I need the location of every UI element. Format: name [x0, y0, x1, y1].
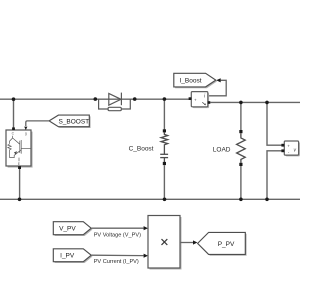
svg-text:PV Current (I_PV): PV Current (I_PV) — [94, 259, 139, 265]
svg-text:I_Boost: I_Boost — [179, 77, 201, 84]
svg-text:C_Boost: C_Boost — [129, 146, 154, 153]
svg-text:V_PV: V_PV — [59, 226, 76, 233]
svg-text:LOAD: LOAD — [213, 147, 231, 154]
svg-text:g: g — [25, 132, 27, 136]
svg-text:S_BOOST: S_BOOST — [58, 118, 89, 125]
svg-text:P_PV: P_PV — [218, 241, 235, 248]
svg-text:I_PV: I_PV — [60, 253, 75, 260]
svg-text:PV Voltage (V_PV): PV Voltage (V_PV) — [94, 232, 141, 238]
